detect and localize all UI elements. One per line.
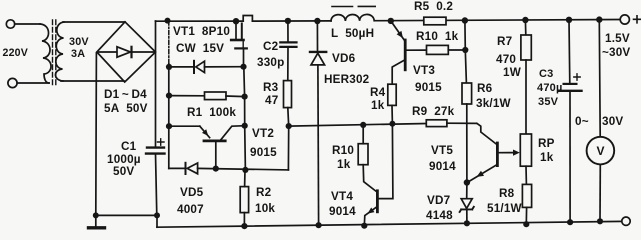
svg-text:3k/1W: 3k/1W (476, 97, 512, 110)
junction dot R3 bottom node (286, 123, 292, 129)
wire VD5 line from rail corner (169, 167, 185, 169)
wire R8 bottom lead (525, 207, 527, 224)
inductor L winding (331, 14, 374, 21)
svg-text:R6: R6 (477, 82, 493, 95)
transistor VT2 emitter diagonal with arrow (200, 126, 210, 137)
diode VD7 top lead (466, 183, 468, 199)
more elements appended below (289, 16, 615, 228)
junction dot VT3 emitter node on rail (388, 18, 394, 24)
svg-text:R5 0.2: R5 0.2 (414, 0, 453, 13)
junction dot R1 line at rail (166, 93, 172, 99)
transistor VT2 base lead down (215, 141, 217, 169)
svg-text:9014: 9014 (429, 160, 456, 173)
resistor R4 body (388, 84, 396, 105)
svg-text:1k: 1k (371, 99, 385, 112)
junction dot VT2 collector (242, 123, 248, 129)
diode VD7 triangle (461, 199, 472, 209)
voltmeter V body (587, 137, 615, 165)
wire zener line left (169, 66, 193, 68)
svg-text:VD5: VD5 (180, 186, 204, 199)
junction dot zener line at rail (166, 64, 172, 70)
wire gate node vertical down to VD5 line (244, 67, 246, 170)
wire left block rail upper (faded dash-dot) (168, 21, 170, 64)
capacitor C2 bottom lead (287, 47, 289, 81)
svg-text:R7: R7 (497, 35, 512, 48)
junction dot top rail / left block rail (165, 18, 171, 24)
svg-text:VD7: VD7 (427, 194, 450, 207)
svg-text:~30V: ~30V (602, 46, 630, 59)
svg-text:C3: C3 (539, 68, 553, 80)
junction dot C2 top on rail (285, 18, 291, 24)
transistor VT5 emitter diagonal with arrow (468, 164, 498, 182)
svg-text:30V: 30V (69, 36, 89, 48)
junction dot R5 right on rail (462, 17, 468, 23)
wire R1 right to vertical (226, 95, 245, 98)
bridge inner diode wire (99, 51, 118, 53)
transistor VT2 emitter wire (169, 125, 200, 127)
resistor R3 body (284, 81, 292, 108)
transformer T1 primary winding (40, 24, 51, 83)
wire main right vertical from rail (465, 21, 467, 84)
svg-text:1W: 1W (503, 66, 522, 79)
svg-text:9014: 9014 (329, 205, 356, 218)
wire R10 right to vertical (448, 49, 465, 51)
capacitor C2 top lead (287, 21, 289, 42)
svg-text:C1: C1 (121, 140, 137, 153)
junction dot minus link left (93, 212, 99, 218)
transistor VT3 emitter diagonal with arrow (391, 21, 405, 41)
transistor VT2 collector diagonal (221, 126, 245, 140)
MOSFET VT1 channel bar (231, 39, 243, 42)
transistor VT5 base wire to RP wiper (498, 152, 516, 154)
junction dot VD6 bottom on rail (316, 222, 322, 228)
svg-text:51/1W: 51/1W (487, 202, 523, 215)
wire voltmeter top lead (598, 20, 601, 137)
junction dot VD7 bottom on rail (464, 220, 470, 226)
transistor VT2 base bar (204, 139, 225, 142)
capacitor C2 plates (280, 41, 296, 43)
capacitor C1 plates (147, 146, 164, 148)
wire left block rail lower (168, 64, 170, 168)
transistor VT3 collector diagonal (392, 60, 405, 84)
MOSFET VT1 gate plate (235, 47, 247, 49)
output terminal bottom (622, 217, 630, 225)
zener diode CW15V triangle (196, 61, 205, 72)
transformer T1 secondary winding (55, 22, 64, 81)
capacitor C3 plates (564, 83, 577, 85)
top rail (156, 20, 244, 22)
resistor R9 body (426, 120, 447, 127)
svg-text:VT1 8P10: VT1 8P10 (173, 25, 230, 38)
capacitor C3 top lead (568, 20, 571, 84)
junction dot VT4 emitter on rail (361, 223, 367, 229)
bridge rectifier D1-D4 diamond (97, 22, 156, 82)
wire R2 leads (244, 170, 246, 187)
svg-text:220V: 220V (3, 47, 29, 59)
svg-text:CW 15V: CW 15V (176, 42, 224, 55)
wire R6 bottom lead (466, 104, 468, 123)
resistor R10 lower body (358, 144, 368, 165)
svg-text:4148: 4148 (426, 209, 453, 222)
diode VD7 cathode bar with ticks (460, 207, 474, 212)
junction dot C3 bottom on rail (567, 219, 573, 225)
svg-text:R10: R10 (332, 144, 354, 157)
svg-text:VT5: VT5 (431, 144, 453, 157)
wire R4 bottom lead (391, 105, 393, 123)
ground stub (95, 215, 97, 226)
bridge inner diode symbol (117, 47, 131, 57)
transistor VT5 base bar (496, 143, 499, 166)
junction dot R2 bottom on rail (241, 223, 247, 229)
wire rail hop at VT1 (243, 16, 252, 22)
svg-text:R3: R3 (263, 81, 279, 94)
terminal top-left 220V input (6, 20, 14, 28)
resistor R7 body (521, 35, 531, 60)
resistor R1 body (205, 92, 227, 100)
svg-text:R9 27k: R9 27k (412, 105, 455, 118)
svg-text:R10 1k: R10 1k (416, 30, 459, 43)
resistor R6 body (462, 83, 472, 104)
junction dot R2 top node (242, 167, 248, 173)
resistor R5 rail box (424, 17, 446, 25)
svg-text:R2: R2 (256, 186, 272, 199)
junction dot C3 top on rail (566, 17, 572, 23)
svg-text:R1 100k: R1 100k (187, 106, 236, 119)
wire C3 bottom lead (569, 91, 571, 222)
junction dot VT2 emitter at rail (166, 123, 172, 129)
wire R10 lower top lead (362, 125, 364, 144)
svg-text:1k: 1k (540, 151, 554, 164)
wire vertical to VT5 emitter node (466, 123, 468, 182)
wire C1 bottom to negative link (156, 154, 157, 216)
capacitor C1 polarity plus (158, 139, 165, 145)
MOSFET VT1 bar-to-gate link (242, 41, 244, 48)
svg-text:30V: 30V (602, 115, 623, 128)
MOSFET VT1 drain dot on rail (233, 18, 239, 24)
wire R7 top lead (524, 20, 526, 35)
transistor VT5 collector riser (477, 123, 497, 144)
MOSFET VT1 left leg (235, 21, 237, 39)
wire negative link (96, 214, 157, 216)
diode VD6 cathode bar (310, 51, 326, 53)
resistor R10 upper body (427, 45, 449, 54)
junction dot R4 bottom / VT4 base riser (389, 121, 395, 127)
wire node down to VD5 line corner (287, 126, 289, 170)
wire zener line right to VT1 gate (205, 66, 244, 68)
svg-text:R4: R4 (370, 86, 386, 99)
svg-text:V: V (597, 144, 605, 158)
inductor L core dashes (332, 6, 353, 8)
transistor VT4 base wire right and up (379, 124, 393, 199)
svg-text:RP: RP (538, 137, 555, 150)
MOSFET VT1 gate lead (243, 48, 245, 66)
wire from top terminal to primary (15, 23, 40, 25)
svg-text:3A: 3A (71, 48, 85, 60)
junction dot VT5 emitter node (464, 179, 470, 185)
potentiometer RP body (520, 134, 531, 166)
transistor VT4 emitter diagonal with arrow (364, 207, 377, 226)
bottom rail (157, 221, 622, 227)
capacitor C3 polarity plus (574, 74, 580, 80)
svg-text:D1 ~ D4: D1 ~ D4 (104, 88, 147, 101)
junction dot R8 bottom on rail (523, 221, 529, 227)
zener diode CW15V cathode bar (193, 61, 195, 73)
wire R1 line left (169, 95, 205, 97)
terminal bottom-left 220V input (8, 78, 17, 87)
junction dot VD6 top on rail (314, 18, 320, 24)
wire bridge minus output down (95, 53, 98, 215)
svg-text:4007: 4007 (177, 203, 204, 216)
MOSFET VT1 right leg (241, 24, 243, 40)
svg-text:0~: 0~ (575, 115, 589, 128)
wire R9 right to vertical (447, 122, 477, 124)
wire voltmeter bottom lead (599, 164, 601, 221)
junction dot R1 right (242, 94, 248, 100)
wire R10 lower bottom lead to VT4 collector (363, 165, 376, 192)
junction dot R10 right (462, 47, 468, 53)
ground bar (89, 226, 105, 229)
diode VD6 top lead (316, 21, 318, 51)
diode VD5 cathode bar (185, 163, 187, 174)
svg-text:L 50µH: L 50µH (331, 27, 374, 40)
wire RP bottom to R8 (525, 166, 527, 184)
svg-text:1k: 1k (337, 158, 351, 171)
output terminal plus (620, 15, 629, 24)
wire VD6 anode down to bottom rail (317, 65, 320, 225)
junction dot VT1 gate node (240, 64, 246, 70)
transistor VT4 base bar (376, 191, 379, 212)
transistor VT3 base bar (404, 40, 407, 70)
output plus sign (634, 16, 641, 23)
wire R7 bottom to RP (525, 60, 527, 134)
diode VD5 triangle (187, 163, 197, 174)
svg-text:47: 47 (265, 94, 278, 107)
junction dot voltmeter bottom on rail (597, 218, 603, 224)
wire node-B horizontal line (289, 124, 427, 127)
svg-text:35V: 35V (538, 96, 559, 108)
junction dot VT2 base on VD5 line (213, 166, 219, 172)
wire VD5 line right (198, 168, 289, 170)
junction dot R7 top on rail (522, 17, 528, 23)
diode VD6 triangle (311, 53, 325, 65)
svg-text:C2: C2 (263, 40, 279, 53)
transformer T1 core (52, 20, 54, 86)
svg-text:5A 50V: 5A 50V (104, 102, 148, 115)
svg-text:50V: 50V (113, 165, 134, 178)
wire R3 bottom to node (287, 108, 290, 127)
svg-text:470: 470 (496, 53, 516, 66)
svg-text:1.5V: 1.5V (605, 32, 630, 45)
wire from bottom terminal to primary (17, 82, 49, 84)
junction dot minus link right (154, 212, 160, 218)
svg-text:9015: 9015 (415, 81, 442, 94)
svg-text:470µ: 470µ (537, 82, 563, 94)
transistor VT3 base wire to R10 (406, 49, 427, 51)
svg-text:VT3: VT3 (413, 64, 435, 77)
resistor R8 body (522, 184, 531, 207)
junction dot voltmeter top on rail (596, 16, 602, 22)
junction dot R10 lower top (360, 122, 366, 128)
wire secondary top to bridge AC1 (63, 21, 125, 23)
svg-text:VD6: VD6 (332, 52, 356, 65)
svg-text:R8: R8 (499, 187, 515, 200)
svg-text:VT4: VT4 (331, 190, 353, 203)
svg-text:10k: 10k (255, 202, 275, 215)
wire secondary bottom to bridge AC2 (61, 80, 124, 82)
svg-text:HER302: HER302 (324, 73, 370, 86)
resistor R2 body (240, 187, 248, 213)
wire plus rail vertical from bridge to C1 (155, 21, 157, 147)
svg-text:330p: 330p (257, 56, 284, 69)
wire bottom rail drop (156, 215, 158, 227)
wire VD7 bottom lead (466, 209, 468, 223)
svg-text:9015: 9015 (250, 146, 277, 159)
potentiometer RP wiper arrow (513, 150, 520, 156)
svg-text:VT2: VT2 (252, 127, 274, 140)
